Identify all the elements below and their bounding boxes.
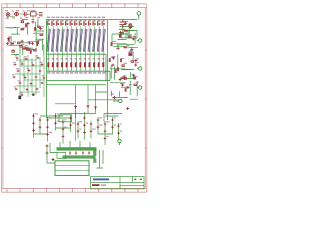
wires into IC U5 (47, 148, 55, 163)
power supply cluster topleft: wiring (5, 19, 44, 55)
node mid rail (47, 53, 107, 55)
top right hookup: wiring (112, 26, 136, 43)
thick power bus lower (63, 155, 96, 158)
connector flag mid2 (137, 67, 142, 70)
transistor row Q1-Q13 (47, 17, 105, 18)
sheet frame right edge (145, 4, 147, 192)
component near low flag (113, 96, 116, 99)
connector flag bottom (118, 139, 121, 145)
sheet frame bottom ruler band (2, 188, 147, 192)
wire right risers (106, 54, 110, 80)
title block table (91, 177, 145, 189)
wire right spine (108, 20, 129, 120)
bus vertical join (93, 150, 96, 155)
right interface cluster: wiring (110, 44, 138, 99)
box top right (128, 31, 137, 39)
corner link wires (8, 14, 39, 20)
node VCC top bus (46, 19, 137, 21)
component U2 (120, 20, 127, 28)
resistor row R1-R13 (49, 54, 104, 71)
IC box U5 (55, 161, 89, 176)
ground mark small (32, 93, 34, 95)
control section vertical chains (34, 112, 119, 145)
mid drops (76, 85, 96, 105)
wires to control block (47, 109, 123, 122)
right interface cluster: labels (111, 41, 139, 87)
node bottom rail (47, 70, 111, 72)
corner microtext labels (5, 10, 40, 18)
rev marks (134, 179, 136, 180)
wires right of bus (96, 150, 103, 168)
thick power bus upper (57, 147, 97, 150)
left long drop (46, 71, 48, 118)
doc number (red) (92, 184, 100, 186)
filter choke L1 (39, 12, 43, 15)
top right hookup: labels (120, 21, 136, 37)
small box left of bus (57, 152, 66, 158)
link wires lower mid (88, 92, 119, 100)
left low chain (46, 145, 55, 162)
connector flag low mid (113, 99, 122, 102)
power supply cluster topleft: labels (8, 19, 44, 50)
ground symbol (18, 96, 21, 100)
stray component right mid (126, 107, 129, 110)
short link low (55, 104, 76, 141)
wire left riser (46, 20, 48, 72)
IC box U4 (59, 115, 72, 122)
bridge rectifier B1 (15, 12, 19, 16)
transformer T1 (6, 13, 10, 17)
power supply cluster topleft: components (6, 21, 43, 54)
diodes on drops (74, 105, 97, 110)
capacitor marks near bus (69, 151, 90, 154)
regulator cluster left custom (14, 55, 44, 97)
regulator IC1 (31, 12, 37, 16)
bus feed wires (50, 141, 90, 153)
capacitor C0 (23, 12, 28, 16)
sheet frame left edge (2, 4, 4, 192)
bus wires to right (47, 81, 111, 85)
connector flag mid1 (137, 39, 142, 42)
right interface cluster: components (109, 42, 137, 91)
title text (blue) (93, 178, 109, 180)
top right hookup: components (119, 22, 135, 40)
sheet frame top ruler band (2, 4, 147, 8)
lamp column smear band (47, 29, 104, 52)
lamp column elements LA1-LA13 (49, 26, 104, 54)
connector flag mid3 (137, 86, 142, 89)
connector flag top right (137, 12, 141, 20)
